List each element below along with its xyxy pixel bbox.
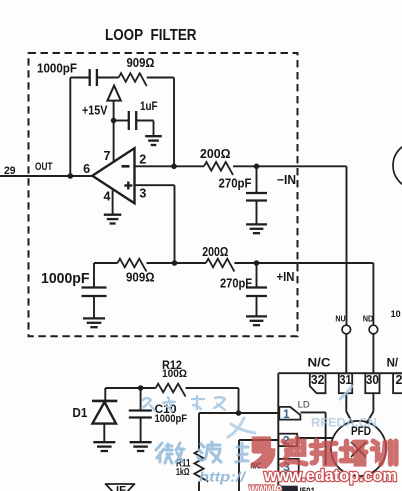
wire feedback vertical from output node up [69, 78, 71, 177]
pin box 32 (N/C, flag shape) [310, 373, 326, 393]
node LD junction [236, 410, 242, 416]
wire cap to resistor [97, 77, 119, 79]
capacitor 270pF (upper) [256, 166, 258, 193]
capacitor C10 [140, 388, 142, 411]
ground for D1 [93, 442, 115, 451]
wire pin 2 external left and down [239, 439, 278, 441]
ground for C10 [130, 442, 152, 451]
capacitor C feedback 1000pF (top) [90, 69, 97, 86]
svg-text:1: 1 [283, 407, 290, 421]
node C10 junction [138, 385, 144, 391]
wire LD node to pin 1 [239, 412, 280, 414]
wire R11 bottom [198, 482, 200, 491]
resistor 200 ohm (upper) [204, 162, 233, 175]
svg-text:+IN: +IN [277, 270, 295, 284]
svg-text:270pF: 270pF [220, 276, 252, 291]
wire op-amp pin 3 right then down [135, 184, 175, 186]
pin box 30 [365, 373, 379, 393]
dashed loop-filter boundary box [29, 53, 298, 336]
wire op-amp pin 2 to 200 ohm [135, 165, 205, 167]
wire 270pF to ground (lower) [256, 296, 258, 316]
svg-text:30: 30 [366, 373, 379, 387]
wire C10 to ground [140, 418, 142, 442]
svg-text:10: 10 [391, 309, 401, 320]
node output junction [68, 173, 74, 179]
svg-text:100Ω: 100Ω [162, 368, 187, 380]
ground for op-amp pin 4 [104, 215, 122, 224]
power symbol +15V arrow [107, 86, 120, 101]
wire resistor to right feedback corner [147, 77, 174, 79]
wire 270pF to ground (upper) [256, 201, 258, 225]
wire R11 top [198, 413, 200, 451]
svg-text:−IN: −IN [277, 173, 296, 187]
wire pin 30 to PFD [372, 393, 374, 411]
test point circle ND [369, 325, 378, 334]
svg-text:1000pF: 1000pF [155, 413, 188, 425]
svg-text:www.e: www.e [248, 479, 282, 491]
wire 200 ohm to -IN and beyond [233, 165, 347, 167]
resistor R12 [156, 384, 186, 397]
wire 200 ohm to +IN corner [234, 262, 373, 264]
IC U501 left edge [277, 373, 279, 491]
watermark char bo (blue) [198, 442, 221, 462]
svg-text:4: 4 [104, 190, 111, 204]
svg-text:LD: LD [298, 399, 310, 409]
IC U501 top edge [278, 372, 402, 374]
wire LD node left to R11 [199, 412, 239, 414]
wire D1 to ground [103, 424, 105, 442]
watermark blue handwriting row [142, 396, 225, 411]
pin box 29 (partial at edge) [393, 373, 402, 393]
svg-text:1uF: 1uF [140, 99, 158, 113]
svg-text:1000pF: 1000pF [41, 270, 90, 287]
node pin3 junction on lower net [172, 260, 178, 266]
svg-text:+15V: +15V [82, 103, 108, 118]
svg-text:7: 7 [104, 149, 111, 163]
ground for 270pF (upper) [246, 224, 267, 233]
svg-text:200Ω: 200Ω [200, 146, 231, 161]
wire feedback right vertical down to inverting input [173, 78, 175, 167]
watermark red char xun [372, 441, 396, 464]
svg-text:OUT: OUT [35, 161, 53, 173]
svg-text:909Ω: 909Ω [126, 270, 155, 284]
wire +IN vertical down to ND [372, 263, 374, 325]
op-amp minus input marker [122, 165, 130, 168]
watermark red char tuo [311, 440, 336, 464]
watermark red char pei [341, 441, 366, 464]
filled block (bottom, partial) [279, 486, 298, 491]
wire pin 2 to PFD [297, 437, 333, 439]
watermark red char yi [253, 439, 272, 466]
op-amp U1 triangle (output pin 6 at left) [92, 148, 134, 203]
svg-text:www.edatop.com: www.edatop.com [263, 466, 397, 485]
wire NU to pin 31 [345, 334, 347, 374]
node supply/1uF junction [111, 118, 117, 124]
ground for 270pF (lower) [246, 316, 267, 325]
buffer IF triangle (partial at bottom edge) [105, 484, 135, 491]
svg-text:2: 2 [139, 153, 146, 167]
phase-frequency detector PFD circle [331, 421, 386, 476]
svg-text:N/C: N/C [308, 357, 331, 369]
pin box 31 [339, 373, 352, 393]
wire ND to pin 30 [372, 334, 374, 374]
svg-text:N/: N/ [387, 357, 399, 369]
test point circle NU [342, 325, 351, 334]
wire R12 right then down to LD node [186, 387, 239, 389]
wire junction to 1uF cap [114, 120, 129, 122]
wire 1uF to ground [136, 120, 153, 122]
resistor 909 ohm (top feedback) [119, 73, 147, 86]
svg-text:ND: ND [363, 315, 374, 324]
watermark red char di [282, 438, 306, 465]
capacitor 270pF (lower) [256, 263, 258, 288]
wire 909 to 200 (lower) [147, 262, 206, 264]
wire lower net left segment to 1000pF drop [94, 262, 118, 264]
ground for 1000pF (lower) [83, 318, 105, 327]
svg-text:270pF: 270pF [219, 175, 252, 190]
svg-text:NU: NU [335, 315, 345, 324]
wire R12 net horizontal [105, 387, 155, 389]
svg-text:2: 2 [396, 373, 402, 387]
svg-text:1kΩ: 1kΩ [176, 466, 190, 478]
resistor 909 ohm (lower) [118, 259, 147, 272]
svg-text:3: 3 [139, 187, 146, 201]
partial circle (edge of adjacent symbol) [393, 142, 402, 189]
svg-text:200Ω: 200Ω [202, 244, 228, 259]
diode D1 [104, 388, 106, 400]
wire OUT from pin 29 to op-amp output [0, 175, 93, 177]
watermark char partial (blue) [236, 443, 248, 462]
svg-text:RFEDA.CN: RFEDA.CN [311, 416, 377, 430]
watermark char wei (blue) [156, 443, 184, 463]
pin box 1 (LD, flag shape) [279, 407, 300, 420]
node 270pF junction (upper) [254, 164, 260, 170]
svg-text:6: 6 [83, 162, 90, 176]
watermark blue swoosh near pin1 [228, 386, 352, 437]
PFD mixer X symbol [351, 442, 366, 457]
svg-text:IF: IF [116, 485, 126, 491]
svg-text:http://: http:// [199, 469, 247, 485]
node 270pF junction (lower) [254, 260, 260, 266]
node feedback / pin2 junction [171, 164, 177, 170]
wire pin 31 to PFD [345, 393, 347, 411]
ground for 1uF [145, 136, 162, 145]
svg-text:909Ω: 909Ω [127, 56, 155, 70]
svg-text:U501: U501 [296, 486, 315, 491]
op-amp plus input marker [124, 182, 132, 190]
wire LD internal right then down [300, 411, 325, 413]
wire +15V down to op-amp pin 7 [113, 101, 115, 163]
svg-text:1000pF: 1000pF [37, 62, 77, 76]
pin box 2 [279, 434, 298, 446]
resistor 200 ohm (lower) [206, 259, 235, 272]
svg-text:32: 32 [311, 373, 325, 387]
pin box 3 [279, 459, 299, 473]
wire op-amp pin 4 to ground [112, 190, 114, 214]
wire feedback top left segment [70, 77, 89, 79]
wire -IN vertical down to NU [346, 166, 348, 325]
svg-text:D1: D1 [72, 405, 87, 420]
capacitor 1000pF (lower) [93, 263, 95, 288]
capacitor 1uF [129, 111, 136, 130]
svg-text:LOOP FILTER: LOOP FILTER [105, 27, 197, 44]
wire 1000pF to ground (lower) [93, 296, 95, 318]
resistor R11 [194, 451, 208, 482]
svg-text:31: 31 [340, 373, 352, 387]
